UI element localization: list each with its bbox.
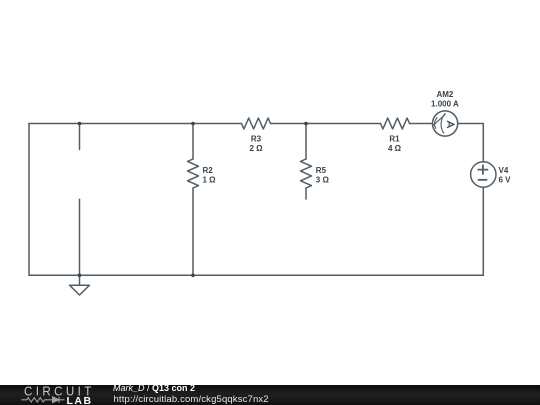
ammeter A letter [447,121,454,128]
wire top middle segment [271,123,381,125]
ammeter AM2 circle [433,111,458,136]
ammeter meter arc inner [435,118,437,129]
ground triangle [70,285,90,295]
resistor R5 zigzag [301,159,312,188]
wire left side [28,124,30,276]
ground stub [79,275,81,285]
junction node at top x80 [78,122,82,126]
wire R5 bottom stub [305,188,307,199]
logo wire with resistor and diode [21,397,64,403]
wire right side upper [482,124,484,162]
resistor R3 zigzag [242,118,271,129]
ammeter meter arc outer [441,114,445,134]
wire from ammeter to right corner [458,123,484,125]
wire right side lower [482,187,484,275]
resistor R2 zigzag [188,159,199,188]
wire top right to ammeter [410,123,433,125]
wire bottom [29,274,483,276]
wire R2 bottom lead [192,188,194,275]
wire stub upper at node x80 [79,124,81,150]
wire R5 top lead [305,124,307,160]
junction node at top of R5 [304,122,308,126]
wire R2 top lead [192,124,194,160]
junction node at ground [78,274,82,278]
wire stub lower at node x80 [79,199,81,275]
credit line 1 [113,383,195,393]
junction node at bottom of R2 [191,274,195,278]
credit line 2 [114,394,269,405]
voltage source V4 circle [471,162,496,187]
junction node at top of R2 [191,122,195,126]
resistor R1 zigzag [381,118,410,129]
wire top left segment [29,123,242,125]
V4 plus sign [478,165,487,174]
V4 minus sign [479,179,487,181]
ammeter needle [433,115,445,126]
footer black bar [0,385,540,405]
svg-text:LAB: LAB [67,395,93,405]
